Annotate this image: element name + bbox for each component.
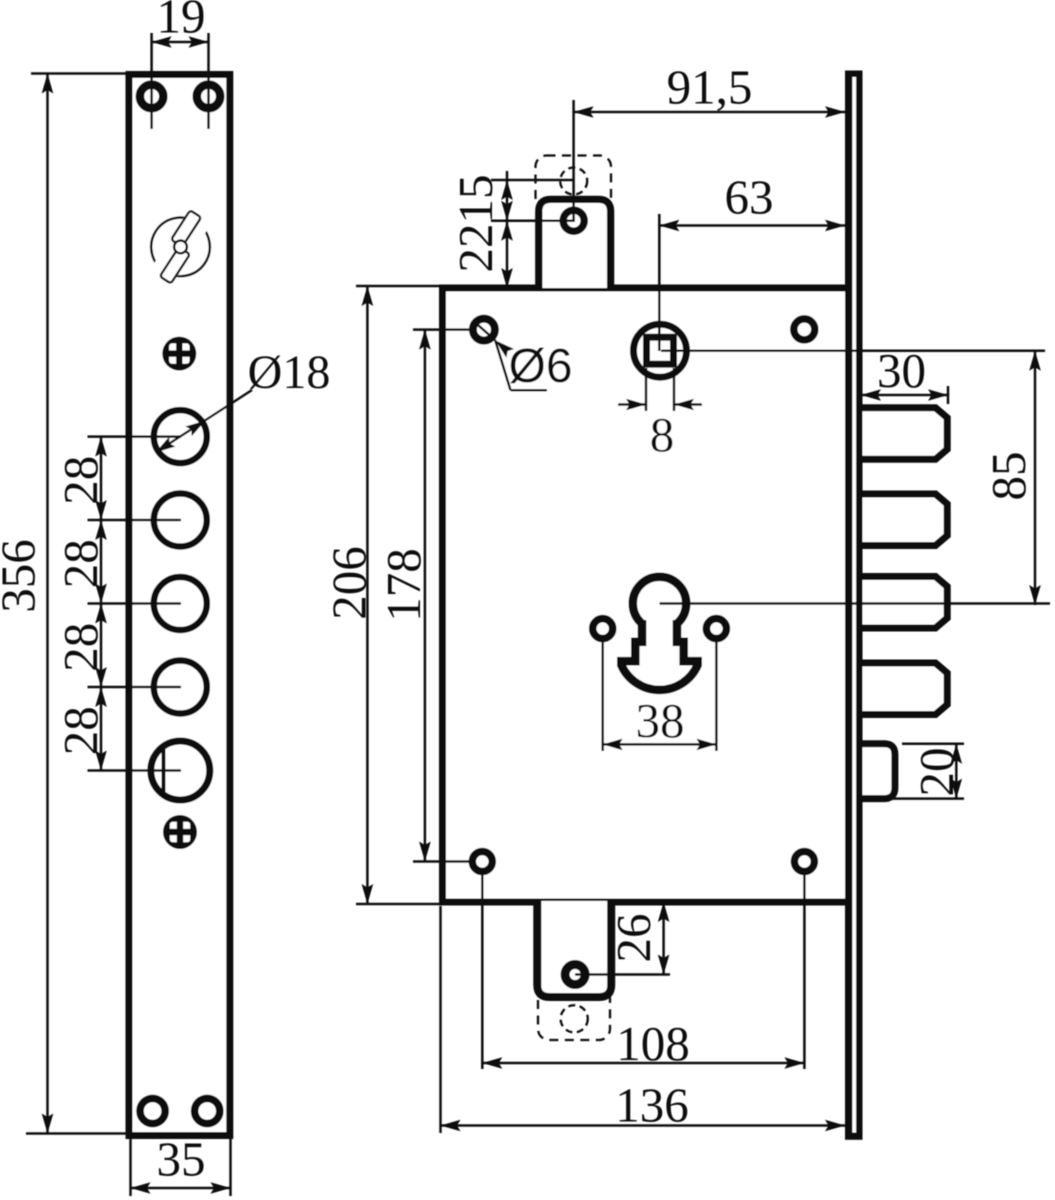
top tab hole (563, 210, 584, 231)
strip screw hole bottom-left (140, 1098, 165, 1123)
latch bolt (858, 744, 895, 799)
dimension 20 (866, 744, 964, 799)
svg-text:28: 28 (53, 456, 108, 505)
svg-text:136: 136 (615, 1078, 689, 1133)
latch hole 5 (151, 741, 210, 800)
faceplate edge view (845, 71, 863, 1140)
svg-text:91,5: 91,5 (667, 60, 753, 115)
bolt hole 4 (154, 661, 207, 714)
dimension 85 (981, 351, 1041, 605)
svg-text:178: 178 (376, 548, 431, 622)
dimension 8 (618, 368, 702, 462)
svg-text:108: 108 (616, 1016, 690, 1071)
svg-text:35: 35 (157, 1132, 206, 1187)
svg-text:15: 15 (448, 175, 503, 224)
body hole top-right (794, 319, 815, 340)
body hole bottom-left (472, 852, 492, 872)
spindle hole (634, 324, 687, 377)
svg-text:20: 20 (909, 748, 964, 797)
dimension 30 (861, 343, 948, 404)
dimension 38 (603, 640, 717, 751)
svg-text:Ø18: Ø18 (248, 346, 331, 399)
faceplate strip outline (129, 75, 230, 1136)
strip screw hole bottom-right (195, 1098, 220, 1123)
dimension chain 28x4 (53, 437, 181, 771)
strip screw hole top-right (197, 85, 220, 108)
dashed cylinder projection bottom (538, 988, 610, 1040)
dimension 22 and 15 (448, 171, 574, 288)
phillips screw upper (162, 337, 196, 371)
deadbolt 3 (858, 577, 947, 628)
svg-text:356: 356 (0, 539, 46, 613)
svg-text:8: 8 (650, 407, 675, 462)
keyhole center line horizontal (660, 602, 1051, 605)
svg-text:38: 38 (636, 693, 685, 748)
body hole bottom-right (794, 852, 814, 872)
svg-text:28: 28 (53, 539, 108, 588)
label O18 (152, 346, 330, 457)
svg-text:206: 206 (322, 546, 377, 620)
dimension 19 (152, 0, 209, 48)
svg-text:19: 19 (157, 0, 206, 44)
dimension 136 (441, 906, 846, 1133)
hole center line left (150, 33, 153, 129)
svg-text:63: 63 (725, 170, 774, 225)
svg-text:22: 22 (448, 224, 503, 273)
dimension 26 (575, 902, 670, 975)
tab center line (572, 100, 575, 222)
dimension 91,5 (574, 60, 845, 118)
latch chord line (162, 747, 166, 795)
dimension 35 (131, 1132, 231, 1197)
manufacturer logo (133, 196, 228, 298)
svg-text:26: 26 (606, 914, 661, 963)
body hole top-left (473, 319, 495, 341)
keyhole side hole right (706, 619, 726, 639)
bolt hole 1 (O18) (154, 410, 207, 463)
keyhole (621, 577, 697, 690)
top mounting tab (539, 199, 611, 288)
svg-text:28: 28 (53, 623, 108, 672)
svg-text:85: 85 (981, 452, 1036, 501)
deadbolt 4 (858, 663, 947, 714)
dimension 356 (0, 74, 128, 1134)
spindle center line vertical (658, 214, 661, 351)
hole center line right (207, 33, 210, 129)
spindle center line horizontal (661, 349, 1045, 352)
svg-text:28: 28 (53, 706, 108, 755)
keyhole side hole left (593, 619, 613, 639)
svg-text:30: 30 (877, 343, 926, 398)
lock body outline (443, 288, 849, 902)
label O6 (474, 321, 573, 393)
strip screw hole top-left (140, 85, 163, 108)
svg-text:Ø6: Ø6 (509, 340, 573, 393)
dimension 206 (322, 286, 441, 904)
bottom tab hole (565, 965, 585, 985)
dimension 178 (376, 330, 470, 862)
dimension 63 (659, 170, 845, 232)
phillips screw lower (163, 815, 197, 849)
bottom mounting tab (537, 901, 611, 997)
deadbolt 2 (858, 494, 947, 545)
bolt hole 3 (154, 577, 207, 630)
dashed cylinder projection top (536, 156, 612, 208)
dimension 108 (482, 871, 804, 1071)
bolt hole 2 (154, 494, 207, 547)
deadbolt 1 (858, 408, 947, 459)
